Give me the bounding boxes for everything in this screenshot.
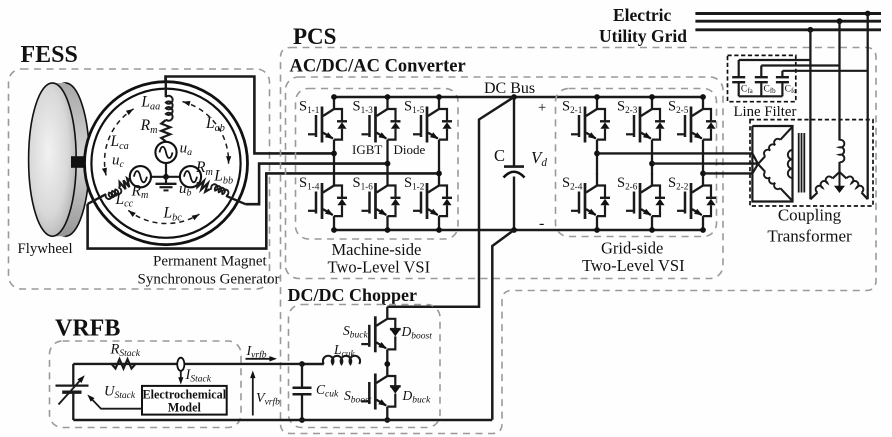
- label U_Stack: [104, 384, 136, 402]
- label IGBT: [352, 142, 382, 157]
- label S1-1: [299, 99, 320, 116]
- label I_vrfb: [246, 344, 267, 361]
- wire grid drop 2: [838, 21, 840, 140]
- label L_ca: [110, 133, 129, 152]
- wire phase b (PMSG right to S1-3 leg): [246, 164, 388, 205]
- label L_cuk: [333, 342, 355, 359]
- label S1-3: [353, 99, 374, 116]
- svg-text:IGBT: IGBT: [352, 142, 382, 157]
- wire grid leg 1 phase to lower igbt: [596, 153, 598, 174]
- AC/DC/AC Converter title: [290, 57, 466, 77]
- label S2-3: [617, 99, 638, 116]
- resistor R_Stack: [112, 359, 136, 368]
- wire C_fb to grid drop: [761, 64, 839, 66]
- wire L_cuk to C_cuk node: [302, 363, 324, 365]
- label S_buck: [343, 323, 368, 340]
- svg-text:Synchronous Generator: Synchronous Generator: [138, 272, 280, 288]
- svg-text:VRFB: VRFB: [55, 316, 120, 342]
- transformer delta winding lower: [758, 164, 793, 201]
- igbt S_buck: [361, 307, 400, 364]
- svg-text:Electrochemical: Electrochemical: [142, 388, 226, 402]
- label S2-5: [668, 99, 689, 116]
- svg-text:Coupling: Coupling: [778, 206, 842, 225]
- igbt S1-6 (machine bottom, leg 2): [362, 174, 401, 231]
- label V_d: [531, 148, 547, 169]
- igbt S2-3 (grid top, leg 2): [626, 97, 665, 164]
- igbt S1-1 (machine top, leg 1): [308, 97, 347, 153]
- node machine leg 3 top rail: [436, 94, 442, 100]
- PMSG caption line 2: [138, 272, 280, 288]
- VRFB enclosure dashed box: [50, 341, 242, 428]
- label u_b: [179, 181, 192, 199]
- Machine-side VSI dashed box: [296, 89, 459, 240]
- Coupling Transformer caption: [767, 206, 852, 246]
- svg-text:PCS: PCS: [293, 24, 336, 49]
- node grid leg 3 bottom rail: [700, 227, 706, 233]
- label R_m phase a: [140, 117, 158, 136]
- node grid line 1 tap: [865, 11, 871, 17]
- resistor R_m phase b: [197, 181, 209, 192]
- source u_c: [130, 166, 151, 187]
- node machine leg 3 bottom rail: [436, 227, 442, 233]
- Electrochemical Model box: [142, 386, 227, 415]
- capacitor C_fa: [732, 60, 745, 96]
- wire u_a to star node: [165, 163, 167, 177]
- label plus: [538, 100, 546, 116]
- Electric Utility Grid label: [599, 5, 687, 46]
- capacitor C_fb: [755, 66, 768, 97]
- mutual inductance arc L_bc: [128, 210, 199, 223]
- transformer delta winding upper: [758, 127, 793, 164]
- label S1-2: [404, 175, 425, 192]
- wye neutral arrow: [834, 172, 845, 193]
- svg-text:Electric: Electric: [613, 5, 672, 25]
- wire grid leg 2 phase to lower igbt: [651, 164, 653, 175]
- wire grid drop 1: [809, 30, 811, 200]
- svg-text:Diode: Diode: [394, 142, 426, 157]
- label S_boost: [344, 388, 372, 405]
- label S1-6: [353, 175, 374, 192]
- PMSG caption line 1: [153, 254, 268, 270]
- igbt S_boost: [361, 364, 400, 420]
- resistor R_m phase c: [120, 178, 131, 189]
- label C_fb: [764, 85, 777, 96]
- source u_a: [155, 142, 176, 163]
- mutual inductance arc L_ab: [183, 101, 232, 164]
- inductor L_cuk: [323, 356, 360, 364]
- Machine-side caption line 1: [332, 240, 422, 259]
- svg-text:Two-Level VSI: Two-Level VSI: [328, 258, 431, 277]
- label S2-2: [668, 175, 689, 192]
- PCS enclosure dashed box (L-shaped): [281, 48, 877, 434]
- node grid leg 1 top rail: [594, 94, 600, 100]
- label R_m phase b: [195, 159, 213, 178]
- svg-text:Model: Model: [168, 401, 202, 415]
- node machine leg 2 phase: [385, 161, 391, 167]
- label D_boost: [401, 324, 433, 341]
- Coupling Transformer dashed box: [750, 120, 873, 206]
- transformer core: [799, 133, 805, 193]
- svg-text:AC/DC/AC Converter: AC/DC/AC Converter: [290, 57, 466, 77]
- wire phase a (PMSG top to S1-1 leg): [166, 77, 335, 154]
- grid bus line 2: [695, 20, 881, 23]
- DC/DC Chopper dashed box: [289, 305, 441, 428]
- capacitor C_fc: [776, 71, 789, 97]
- node machine leg 1 bottom rail: [331, 227, 337, 233]
- label L_ab: [205, 115, 225, 134]
- igbt S1-5 (machine top, leg 3): [413, 97, 452, 173]
- svg-text:Permanent Magnet: Permanent Magnet: [153, 254, 268, 270]
- star node: [163, 174, 169, 180]
- label minus: [539, 215, 544, 232]
- Line Filter dashed box: [728, 55, 796, 101]
- wire grid phase 2 to transformer: [652, 162, 758, 164]
- node grid leg 2 top rail: [649, 94, 655, 100]
- label C: [494, 146, 505, 165]
- label S2-1: [562, 99, 583, 116]
- capacitor C plates: [504, 167, 525, 178]
- svg-text:Two-Level VSI: Two-Level VSI: [582, 256, 685, 275]
- wire machine leg 3 phase to lower igbt: [438, 173, 440, 174]
- label L_bc: [163, 205, 183, 224]
- wire grid drop 3: [867, 14, 869, 200]
- wire u_c to u_b through star: [151, 176, 180, 178]
- node DC bus bottom (capacitor): [511, 227, 517, 233]
- node C_cuk bottom: [299, 417, 305, 423]
- mutual inductance arc L_ca: [102, 109, 134, 175]
- label C_fa: [741, 85, 754, 96]
- svg-text:Utility Grid: Utility Grid: [599, 26, 687, 46]
- transformer delta outline: [752, 126, 792, 202]
- DC bus top rail: [334, 96, 703, 99]
- PMSG stator outer ring: [85, 82, 248, 245]
- label D_buck: [402, 388, 431, 405]
- igbt S2-4 (grid bottom, leg 1): [571, 174, 610, 231]
- inductor L_aa: [166, 77, 173, 121]
- node machine leg 2 bottom rail: [385, 227, 391, 233]
- svg-text:C: C: [494, 146, 505, 165]
- node grid leg 1 bottom rail: [594, 227, 600, 233]
- igbt S2-1 (grid top, leg 1): [571, 97, 610, 153]
- capacitor C_cuk: [293, 364, 312, 420]
- node grid line 3 tap: [808, 27, 814, 33]
- igbt S1-4 (machine bottom, leg 1): [308, 174, 347, 231]
- wire VRFB bottom: [73, 419, 492, 421]
- resistor R_m phase a: [161, 120, 170, 142]
- label u_c: [112, 153, 125, 171]
- svg-text:Transformer: Transformer: [767, 227, 852, 246]
- svg-text:-: -: [539, 215, 544, 232]
- igbt S1-3 (machine top, leg 2): [362, 97, 401, 164]
- node grid leg 1 phase: [594, 151, 600, 157]
- label DC Bus: [484, 80, 535, 97]
- AC/DC/AC Converter dashed box: [286, 77, 724, 279]
- svg-text:Line Filter: Line Filter: [734, 104, 797, 120]
- PCS title: [293, 24, 336, 49]
- svg-text:DC Bus: DC Bus: [484, 80, 535, 97]
- svg-text:Grid-side: Grid-side: [601, 239, 663, 258]
- arrow I_Stack: [178, 371, 183, 385]
- wire DC+ to chopper: [387, 97, 514, 307]
- arrow V_vrfb: [250, 371, 255, 416]
- Flywheel label: [18, 241, 73, 257]
- label Diode: [394, 142, 426, 157]
- source u_b: [180, 166, 201, 187]
- DC bus bottom rail: [334, 229, 703, 232]
- node grid leg 3 top rail: [700, 94, 706, 100]
- label L_bb: [213, 168, 233, 187]
- label S1-4: [299, 175, 320, 192]
- svg-text:DC/DC Chopper: DC/DC Chopper: [288, 285, 418, 305]
- node machine leg 2 top rail: [385, 94, 391, 100]
- line filter common bottom wire: [739, 95, 783, 97]
- igbt S2-6 (grid bottom, leg 2): [626, 174, 665, 231]
- node grid leg 2 phase: [649, 161, 655, 167]
- label S2-4: [562, 175, 583, 192]
- label I_Stack: [185, 367, 212, 385]
- label L_aa: [140, 94, 160, 113]
- DC/DC Chopper title: [288, 285, 418, 305]
- label V_vrfb: [256, 391, 280, 408]
- node chopper midpoint: [384, 361, 390, 367]
- label Line Filter: [734, 104, 797, 120]
- svg-text:Machine-side: Machine-side: [332, 240, 422, 259]
- battery stack (variable source): [56, 364, 89, 420]
- svg-text:FESS: FESS: [21, 42, 78, 68]
- wire phase c (PMSG lower-left to S1-5 leg): [88, 173, 439, 248]
- wire machine leg 1 phase to lower igbt: [333, 153, 335, 174]
- PMSG stator inner ring: [91, 89, 240, 238]
- node chopper bottom (S_boost emitter): [384, 417, 390, 423]
- label L_cc: [115, 191, 134, 210]
- label C_fc: [785, 85, 797, 96]
- capacitor C top lead: [513, 97, 515, 166]
- wire grid leg 3 phase to lower igbt: [702, 173, 704, 174]
- igbt S2-5 (grid top, leg 3): [677, 97, 716, 173]
- label u_a: [180, 141, 193, 159]
- arrow I_vrfb: [246, 356, 278, 361]
- node C_cuk top: [299, 361, 305, 367]
- label R_m phase c: [131, 182, 149, 201]
- arrow U_Stack (model to battery): [87, 395, 142, 409]
- VRFB title: [55, 316, 120, 342]
- igbt S2-2 (grid bottom, leg 3): [677, 174, 716, 231]
- inductor L_bb: [210, 184, 246, 204]
- flywheel: [29, 83, 90, 236]
- svg-text:+: +: [538, 100, 546, 116]
- igbt S1-2 (machine bottom, leg 3): [413, 174, 452, 231]
- node machine leg 1 phase: [331, 151, 337, 157]
- label C_cuk: [316, 382, 339, 399]
- node grid leg 3 phase: [700, 171, 706, 177]
- label R_Stack: [110, 342, 141, 360]
- wire DC- to chopper: [492, 230, 514, 420]
- inductor L_cc: [88, 187, 122, 204]
- transformer delta winding right: [788, 150, 793, 178]
- Grid-side caption line 1: [601, 239, 663, 258]
- Electrochemical Model text: [142, 388, 226, 415]
- label S1-5: [404, 99, 425, 116]
- wire C_fa to grid drop: [739, 59, 811, 61]
- label S2-6: [617, 175, 638, 192]
- shaft: [71, 156, 90, 168]
- wire grid phase 3 to transformer: [703, 172, 754, 174]
- wire VRFB top: [73, 363, 302, 365]
- wire C_fc to grid drop: [782, 70, 867, 72]
- Machine-side caption line 2: [328, 258, 431, 277]
- node machine leg 3 phase: [436, 171, 442, 177]
- grid bus line 1: [695, 12, 881, 15]
- svg-text:Flywheel: Flywheel: [18, 241, 73, 257]
- transformer wye winding: [810, 140, 867, 199]
- Grid-side caption line 2: [582, 256, 685, 275]
- node grid leg 2 bottom rail: [649, 227, 655, 233]
- wire machine leg 2 phase to lower igbt: [386, 164, 388, 175]
- Grid-side VSI dashed box: [556, 89, 717, 237]
- wire grid phase 1 to transformer: [597, 152, 754, 154]
- grid bus line 3: [695, 28, 881, 31]
- capacitor C bottom lead: [513, 177, 515, 231]
- node grid line 2 tap: [837, 18, 843, 24]
- ground: [156, 177, 177, 191]
- FESS title: [21, 42, 78, 68]
- current source I_Stack ellipse: [177, 358, 184, 371]
- FESS enclosure dashed box: [9, 69, 270, 289]
- node machine leg 1 top rail: [331, 94, 337, 100]
- node DC bus top (capacitor): [511, 94, 517, 100]
